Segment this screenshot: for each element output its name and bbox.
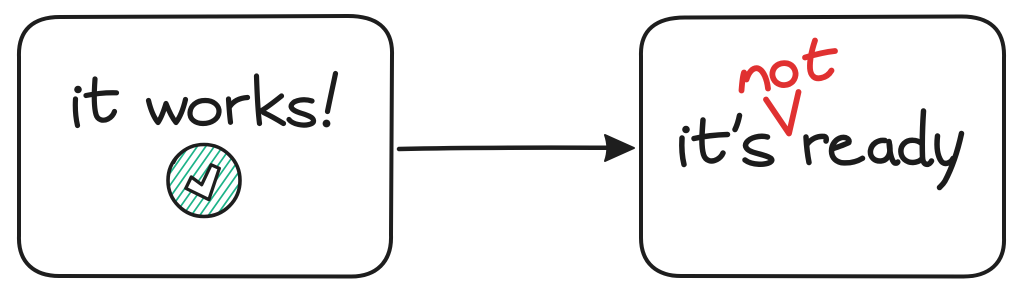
arrow left box to right box [399,135,634,161]
text "ready" [806,111,962,188]
o [190,101,219,124]
o [772,63,795,85]
arrowhead [605,135,634,161]
circle outline [168,145,240,217]
text "not" (red) [742,41,836,91]
w [149,100,186,123]
t [702,120,723,161]
box left "it works!" [19,16,392,277]
i [682,126,690,134]
s [289,100,314,125]
text "it works!" [74,74,335,128]
k [257,76,260,124]
r [806,137,809,163]
t [810,41,832,79]
i [74,86,82,94]
apostrophe [735,116,740,130]
sketchy second pass arc [174,145,202,164]
t [94,79,114,120]
s [745,136,772,164]
check icon circle with teal hatch [130,144,284,218]
n [742,68,769,90]
text "it's" [682,116,772,165]
y [937,136,953,163]
arrow shaft [399,148,609,149]
box right "it's not ready" [641,16,1004,276]
red caret [766,92,799,134]
e [832,137,863,163]
! [328,74,336,112]
teal hatch fill [130,144,284,218]
d [901,140,922,162]
a [870,140,890,161]
r [229,99,231,122]
checkmark [186,165,220,200]
